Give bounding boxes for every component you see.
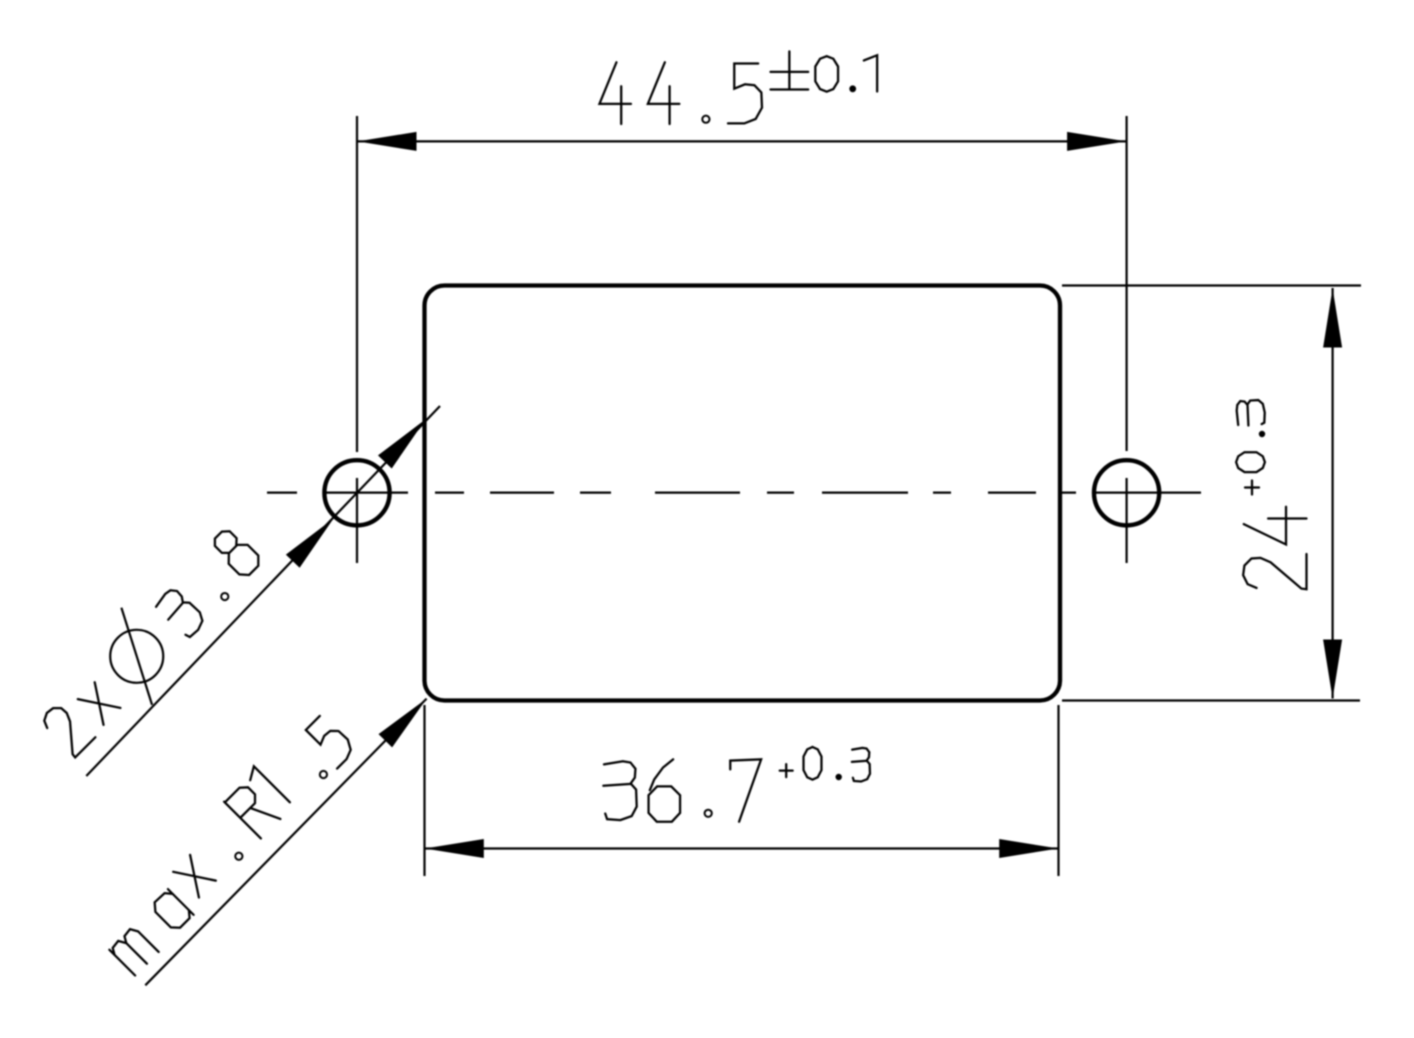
dimension text 36.7 +0.3 <box>603 747 870 822</box>
arrowhead right of 36.7 dim <box>999 839 1058 858</box>
right hole vertical centerline / extension line of 44.5 dim <box>1125 116 1127 451</box>
mounting hole right (d3.8) <box>1094 460 1159 525</box>
leader line for max.R1.5 (points to cutout corner radius) <box>145 699 426 986</box>
arrowhead left of 36.7 dim <box>425 839 484 858</box>
dimension text 44.5 +-0.1 <box>599 51 877 124</box>
extension line top of 24 dim (collinear with cutout top edge) <box>1062 284 1361 286</box>
leader line for 2x d3.8 (points to left hole and cutout edge) <box>86 406 440 776</box>
leader arrowhead at hole edge <box>286 519 334 568</box>
panel cutout outline (36.7 x 24 rounded rectangle) <box>425 286 1061 701</box>
dimension text 24 +0.3 (rotated) <box>1236 400 1306 589</box>
arrowhead left of 44.5 dim <box>358 132 417 151</box>
leader arrowhead at cutout corner <box>379 699 427 748</box>
arrowhead top of 24 dim <box>1323 289 1342 348</box>
arrowhead right of 44.5 dim <box>1067 132 1126 151</box>
extension line bottom of 24 dim (collinear with cutout bottom edge) <box>1062 699 1360 701</box>
mounting hole left (d3.8) <box>324 460 389 525</box>
leader text max.R1.5 (rotated 45) <box>90 706 360 976</box>
leader text 2x d3.8 (rotated 45) <box>23 513 279 769</box>
dimension line 36.7 <box>425 847 1059 849</box>
dimension line 24 (vertical) <box>1331 288 1333 699</box>
arrowhead bottom of 24 dim <box>1323 640 1342 699</box>
horizontal centerline (dashed) <box>267 492 1201 494</box>
dimension line 44.5 (hole spacing) <box>357 140 1127 142</box>
leader arrowhead at cutout left edge <box>378 419 426 468</box>
extension line right of 36.7 dim <box>1057 705 1059 876</box>
left hole vertical centerline / extension line of 44.5 dim <box>356 116 358 452</box>
extension line left of 36.7 dim <box>423 705 425 876</box>
